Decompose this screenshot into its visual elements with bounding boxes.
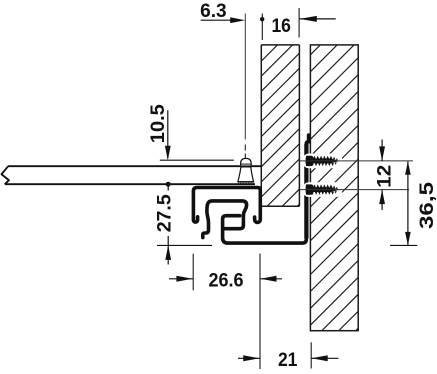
- dimension 16 arrow: [300, 16, 317, 22]
- runner profile shelf, base plate and wall flange: [223, 135, 309, 243]
- drawer bottom bar bottom edge: [5, 183, 255, 185]
- dimension 16 extension line left: [261, 14, 263, 41]
- svg-text:6.3: 6.3: [200, 0, 227, 22]
- svg-text:16: 16: [271, 15, 291, 37]
- runner profile outer C wall with hooks: [193, 188, 260, 223]
- dimension 27.5 arrow: [165, 245, 171, 260]
- dimension 26.6 left arrow: [169, 278, 193, 280]
- dimension 36,5 bottom arrow: [405, 232, 411, 245]
- dimension 21 extension line right: [310, 342, 312, 368]
- dimension 26.6 right arrow: [260, 278, 282, 280]
- dimension 27.5 line segments: [167, 184, 169, 190]
- runner profile inner inverted-U: [203, 201, 247, 238]
- glide clip dome: [241, 158, 252, 165]
- clip centre line upper solid segment: [244, 14, 246, 140]
- drawer bottom bar top edge: [8, 165, 261, 167]
- svg-text:36,5: 36,5: [416, 182, 437, 229]
- svg-text:10.5: 10.5: [147, 104, 169, 143]
- glide clip body: [238, 167, 254, 182]
- drawer bottom bar break symbol: [2, 166, 10, 184]
- dimension 16 extension line right: [298, 8, 300, 38]
- dimension 10.5 line: [167, 110, 169, 158]
- dimension 12 top arrow: [381, 140, 383, 161]
- svg-text:26.6: 26.6: [209, 269, 244, 291]
- glide clip collar line: [240, 163, 251, 165]
- dimension 6.3 leader line: [201, 19, 233, 21]
- dimension 12 bottom arrow: [381, 190, 383, 210]
- dimension 36,5 line: [407, 161, 409, 245]
- dimension 26.6 extension line right: [259, 254, 261, 370]
- panel P1 hatch: [261, 0, 311, 242]
- dimension 27.5 dot: [166, 182, 171, 187]
- dimension 6.3 arrow: [230, 17, 245, 23]
- profile bottom reference line right: [390, 244, 417, 246]
- screw S2 axis / extension line: [300, 189, 409, 191]
- svg-text:21: 21: [278, 349, 298, 371]
- dimension 16 dot: [260, 17, 264, 21]
- screw S1 axis / extension line: [299, 160, 413, 162]
- dimension 36,5 top arrow: [405, 161, 411, 174]
- profile bottom reference line left: [157, 244, 212, 246]
- panel P2 outline: [310, 45, 358, 331]
- dimension 10.5 arrow: [165, 146, 171, 161]
- svg-text:27.5: 27.5: [154, 194, 176, 232]
- dimension 21 left arrow: [238, 357, 260, 359]
- svg-text:12: 12: [373, 165, 395, 188]
- dimension 26.6 extension line left: [192, 254, 194, 291]
- glide clip base teeth: [238, 182, 254, 184]
- screw S1: [303, 154, 342, 169]
- panel P2 hatch: [310, 0, 365, 374]
- panel P1 outline: [261, 45, 299, 206]
- clip top reference line: [160, 159, 234, 161]
- runner profile flange thick segment: [304, 144, 308, 239]
- dimension 21 right arrow: [311, 357, 338, 359]
- screw S2: [303, 182, 342, 197]
- clip centre line dash-dot segment: [244, 145, 246, 182]
